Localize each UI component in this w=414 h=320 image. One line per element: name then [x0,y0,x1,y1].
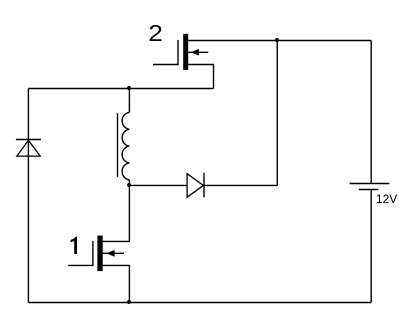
transistor Q2 (top MOSFET) [153,34,214,89]
node junction at inductor bottom [127,183,131,187]
inductor core line [117,113,119,177]
transistor Q1 (bottom MOSFET) [68,236,129,303]
label 1 [71,237,78,254]
node junction at inductor top [127,86,131,90]
wire right rail lower [370,190,372,303]
wire middle column vertical [276,41,278,186]
wire left top horizontal [28,88,213,90]
wire left rail [27,89,29,303]
node junction top [275,38,279,42]
diode D1 (left, pointing up) [16,140,41,157]
wire top rail [188,40,371,42]
wire diode to middle column [204,184,277,186]
wire inductor bottom lead [128,180,130,186]
battery B1 12V [350,184,390,190]
wire inductor top lead [128,89,130,113]
svg-text:12V: 12V [376,192,397,206]
wire inductor bottom to Q1 drain [103,185,130,241]
wire bottom rail [28,302,371,304]
svg-text:2: 2 [148,20,163,46]
wire middle horizontal to diode [129,184,187,186]
wire right rail upper [370,41,372,184]
diode D2 (middle, pointing right) [187,173,204,198]
inductor L1 [122,112,129,179]
node junction bottom [127,300,131,304]
